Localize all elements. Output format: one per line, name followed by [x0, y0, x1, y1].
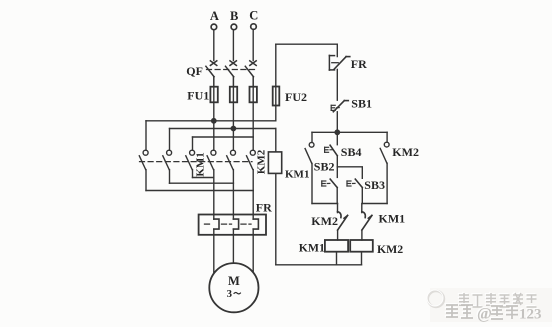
svg-text:KM1: KM1: [285, 169, 309, 181]
svg-text:SB3: SB3: [364, 178, 385, 192]
svg-text:KM1: KM1: [379, 211, 406, 225]
wire KM1-2 to out2: [170, 182, 234, 184]
node after SB1: [335, 130, 339, 134]
FR heater element 2: [233, 219, 238, 229]
E actuator of SB1: [331, 105, 339, 110]
fuse FU1 pole 3: [250, 87, 257, 151]
svg-text:3: 3: [227, 288, 233, 300]
pushbutton SB4: [330, 132, 337, 177]
E actuator of SB2: [322, 181, 330, 186]
pushbutton SB2 (NO): [330, 179, 337, 203]
wire FR to motor 1: [213, 229, 215, 274]
wire bus1 phase A: [146, 120, 276, 122]
FR heater element 1: [214, 219, 219, 229]
coil KM2: [350, 240, 373, 265]
svg-text:A: A: [210, 9, 219, 23]
fuse FU2: [273, 44, 280, 121]
wire KM1-3 to out1: [193, 177, 214, 179]
wire control bottom return: [276, 264, 362, 266]
node B terminal: [231, 24, 237, 60]
wire KM1-1 to out3: [146, 190, 253, 192]
fuse FU1 pole 2: [230, 87, 237, 129]
node dot bus1/A: [212, 119, 216, 123]
main contacts link (dashed): [140, 161, 253, 163]
svg-text:FU2: FU2: [285, 90, 307, 104]
wire control top feed: [276, 44, 338, 56]
svg-text:@: @: [477, 306, 492, 323]
contactor KM2 main contact 1: [207, 150, 216, 219]
wire bus2 phase B: [170, 128, 276, 130]
breaker QF pole 3: [245, 61, 256, 87]
svg-text:KM1: KM1: [195, 152, 207, 176]
wire FR to motor 3: [252, 229, 254, 273]
wire A continues to KM2-1: [213, 121, 215, 151]
E actuator of SB4: [325, 147, 333, 152]
watermark logo circle: [427, 290, 444, 307]
svg-text:C: C: [249, 8, 258, 22]
motor M circle: [209, 263, 258, 312]
watermark white patch: [430, 288, 552, 322]
wire branch bar: [312, 131, 387, 133]
svg-text:KM2: KM2: [377, 242, 403, 256]
svg-text:KM2: KM2: [255, 149, 267, 174]
contactor KM1 aux NO (self hold): [305, 132, 337, 203]
svg-text:FR: FR: [351, 57, 367, 71]
watermark text line2 (glyph shapes): [445, 304, 542, 323]
svg-text:FR: FR: [256, 201, 272, 215]
wire FR to motor 2: [232, 229, 234, 264]
FR link dashes: [205, 223, 252, 225]
pushbutton SB3 (NO): [355, 179, 362, 203]
control return rectangle KM1: [268, 129, 281, 265]
coil KM1: [325, 240, 348, 265]
contactor KM2 main contact 3: [247, 150, 256, 219]
E actuator of SB3: [347, 181, 355, 186]
contactor KM2 main contact 2: [227, 150, 236, 219]
contactor KM1 main contact 3: [186, 137, 195, 178]
pushbutton SB1 (NC stop): [333, 101, 348, 133]
svg-text:SB2: SB2: [314, 159, 335, 173]
svg-text:QF: QF: [186, 64, 203, 78]
svg-text:KM2: KM2: [311, 214, 338, 228]
interlock contact KM2 (NC): [338, 204, 348, 241]
fuse FU1 pole 1: [210, 87, 217, 121]
contactor KM1 main contact 2: [163, 129, 172, 184]
interlock contact KM1 (NC): [362, 204, 372, 241]
svg-text:KM1: KM1: [299, 240, 325, 254]
svg-text:SB4: SB4: [341, 145, 362, 159]
contactor KM1 main contact 1: [139, 121, 148, 191]
svg-text:B: B: [230, 9, 238, 23]
node C terminal: [251, 24, 257, 61]
node A terminal: [211, 24, 217, 60]
watermark text line1 (glyph shapes): [458, 292, 537, 307]
breaker QF pole 2: [226, 61, 237, 87]
wire bus3 phase C: [193, 136, 254, 138]
node dot bus2/B: [231, 126, 235, 130]
svg-text:KM2: KM2: [392, 145, 419, 159]
svg-text:M: M: [228, 274, 240, 288]
breaker QF pole 1: [206, 61, 217, 87]
wire B continues to KM2-2: [232, 129, 234, 151]
svg-text:SB1: SB1: [351, 97, 372, 111]
svg-text:123: 123: [519, 307, 542, 323]
FR heater element 3: [253, 219, 258, 229]
thermal contact FR (NC) in control: [329, 55, 349, 100]
thermal relay FR box: [199, 215, 266, 235]
contactor KM2 aux NO (self hold): [362, 132, 389, 203]
wire SB4 bottom to SB3 branch: [337, 167, 362, 179]
svg-text:FU1: FU1: [187, 89, 209, 103]
breaker QF link (dashed): [207, 69, 255, 71]
